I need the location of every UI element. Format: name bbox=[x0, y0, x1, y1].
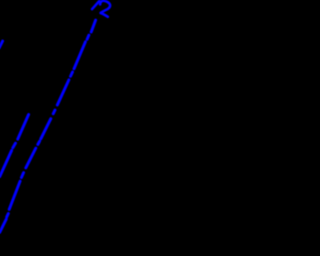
dash-dot line short bbox=[0, 115, 29, 177]
label "12" bbox=[92, 1, 110, 17]
edge stroke left bbox=[0, 41, 3, 48]
dash-dot line long bbox=[0, 20, 96, 232]
